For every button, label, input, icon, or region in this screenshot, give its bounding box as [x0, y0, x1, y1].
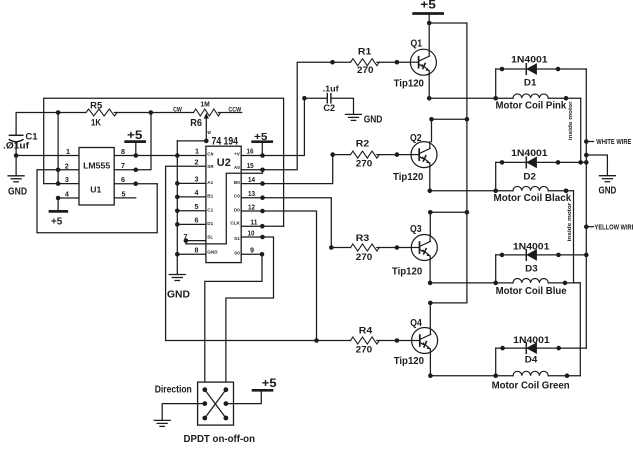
- capacitor C1 .01uf: [3, 113, 38, 176]
- wire U2 pin10 S1 to DPDT switch: [226, 235, 274, 390]
- resistor R5 1K: [86, 101, 117, 128]
- svg-text:R5: R5: [90, 101, 102, 111]
- wire U2 pin2 SR serial feedback to R4 row: [166, 166, 351, 340]
- wire U2 pin15 QA to R1: [241, 60, 350, 172]
- svg-text:Motor Coil Green: Motor Coil Green: [492, 381, 570, 392]
- resistor R3 270: [351, 233, 412, 262]
- svg-text:Motor Coil Black: Motor Coil Black: [494, 193, 572, 204]
- wire U2 pin9 S0 to DPDT switch: [205, 252, 265, 390]
- svg-text:CCW: CCW: [228, 106, 242, 113]
- diode D2 1N4001: [496, 148, 587, 191]
- diode D4 1N4001: [496, 335, 587, 376]
- svg-text:R6: R6: [190, 118, 202, 129]
- inductor Motor Coil Green: [492, 371, 581, 391]
- svg-text:GND: GND: [599, 186, 617, 197]
- svg-text:1M: 1M: [200, 99, 209, 108]
- label DPDT on-off-on: [184, 434, 256, 445]
- svg-text:6: 6: [121, 175, 125, 184]
- svg-text:inside motor: inside motor: [568, 101, 574, 141]
- ground at C2: [346, 114, 383, 125]
- svg-text:inside motor: inside motor: [567, 202, 573, 242]
- svg-text:10: 10: [248, 228, 255, 237]
- wire U1 pin5 stub: [114, 197, 136, 199]
- U2 internal pin labels: [207, 151, 240, 255]
- svg-text:Q4: Q4: [410, 318, 422, 329]
- shift register U2 74194: [206, 135, 241, 262]
- svg-text:1K: 1K: [91, 118, 101, 128]
- svg-text:5: 5: [195, 202, 199, 211]
- svg-text:R2: R2: [356, 138, 370, 148]
- transistor Q3 Tip120: [392, 210, 467, 278]
- resistor R1 270: [351, 46, 411, 75]
- wire U2 pin11 CLK stub: [241, 224, 283, 229]
- svg-text:16: 16: [247, 147, 254, 156]
- wire blue coil right down to D4 row and green coil right: [579, 283, 581, 376]
- wire U1 pin6 stub: [114, 181, 157, 186]
- wire pink coil right to common node: [580, 98, 582, 162]
- svg-text:Tip120: Tip120: [392, 267, 423, 278]
- svg-text:A1: A1: [207, 180, 213, 185]
- label Direction: [155, 385, 192, 396]
- svg-text:270: 270: [356, 158, 373, 168]
- svg-text:YELLOW WIRE: YELLOW WIRE: [595, 224, 633, 231]
- svg-text:B0: B0: [234, 180, 240, 185]
- svg-text:C0: C0: [234, 194, 240, 199]
- wire R6 wiper to pin1 row: [177, 140, 206, 142]
- transistor Q4 Tip120: [394, 301, 467, 367]
- wire U1 pin7 to R5/R6 junction: [114, 113, 151, 173]
- svg-text:Motor Coil Pink: Motor Coil Pink: [496, 101, 567, 112]
- +5 supply at transistor collectors: [414, 0, 443, 25]
- wire Q2 emitter to black coil: [428, 168, 514, 194]
- svg-text:Q1: Q1: [411, 39, 423, 50]
- svg-text:1: 1: [66, 147, 70, 156]
- ground at DPDT: [154, 420, 170, 426]
- svg-text:R4: R4: [359, 325, 373, 335]
- svg-text:GND: GND: [167, 288, 190, 300]
- svg-text:WHITE WIRE: WHITE WIRE: [596, 139, 631, 146]
- svg-text:14: 14: [248, 175, 255, 184]
- svg-text:Q2: Q2: [410, 133, 422, 144]
- wire Q4 emitter to green coil: [428, 354, 513, 379]
- svg-text:.Ø1uf: .Ø1uf: [3, 140, 30, 150]
- svg-text:+5: +5: [420, 0, 436, 12]
- svg-text:1: 1: [195, 147, 199, 156]
- svg-text:270: 270: [356, 345, 373, 355]
- svg-text:D1: D1: [207, 221, 213, 226]
- svg-text:D1: D1: [524, 77, 537, 88]
- +5 supply at U2 pin 16: [253, 131, 272, 156]
- svg-text:GND: GND: [364, 114, 383, 125]
- +5 supply at U1 pin 4: [50, 211, 67, 227]
- svg-text:GND: GND: [8, 186, 27, 197]
- wire U2 pin13 QC to R3: [241, 195, 350, 249]
- svg-text:4: 4: [65, 190, 69, 199]
- resistor R2 270: [351, 138, 412, 168]
- diode D1 1N4001: [496, 55, 587, 99]
- inductor Motor Coil Black: [494, 186, 574, 204]
- svg-text:1N4001: 1N4001: [513, 335, 550, 345]
- transistor Q1 Tip120: [394, 23, 437, 90]
- svg-text:SR: SR: [207, 164, 214, 169]
- svg-text:74 194: 74 194: [212, 135, 239, 147]
- svg-text:Tip120: Tip120: [394, 356, 425, 367]
- transistor Q2 Tip120: [393, 117, 467, 183]
- svg-text:4: 4: [195, 188, 199, 197]
- svg-text:U2: U2: [217, 157, 231, 169]
- svg-text:SL: SL: [207, 235, 213, 240]
- wire U2 left bus (pins 1,3,4,5,6,8) to ground: [175, 141, 180, 274]
- svg-text:S0: S0: [234, 250, 240, 255]
- svg-text:CLK: CLK: [230, 221, 240, 226]
- +5 supply at DPDT: [253, 376, 277, 390]
- svg-text:Tip120: Tip120: [394, 79, 425, 90]
- ground below C1: [8, 176, 27, 198]
- svg-text:D4: D4: [525, 355, 538, 366]
- switch DPDT on-off-on (Direction): [198, 382, 234, 425]
- svg-text:A0: A0: [234, 165, 240, 170]
- svg-text:2: 2: [65, 161, 69, 170]
- svg-text:1N4001: 1N4001: [511, 55, 547, 65]
- svg-text:Clr: Clr: [207, 151, 214, 156]
- svg-text:DPDT on-off-on: DPDT on-off-on: [184, 434, 256, 445]
- wire main row: C1/U1 pin1 and U1 pin8 to U2 pin1: [14, 153, 206, 158]
- wire Q1 emitter to pink coil: [427, 75, 513, 100]
- svg-text:R3: R3: [356, 233, 370, 243]
- svg-text:.1uf: .1uf: [323, 84, 339, 93]
- wire Q3 emitter to blue coil: [428, 261, 513, 286]
- wire DPDT common right to +5: [226, 392, 261, 404]
- node WHITE WIRE: [586, 139, 631, 146]
- svg-text:270: 270: [356, 252, 373, 262]
- svg-text:+5: +5: [262, 376, 277, 390]
- svg-text:R1: R1: [358, 46, 372, 56]
- svg-text:2: 2: [195, 158, 199, 167]
- svg-text:5: 5: [122, 190, 126, 199]
- wire common node to ground: [586, 155, 607, 175]
- svg-text:8: 8: [121, 147, 125, 156]
- inductor Motor Coil Pink: [496, 94, 581, 112]
- svg-text:+V: +V: [234, 151, 241, 156]
- svg-text:1N4001: 1N4001: [511, 148, 547, 158]
- wire U1 pin3 stub: [44, 183, 79, 185]
- wire 555 pin3 output to 74194 pin11 clock (top rail): [44, 98, 284, 226]
- svg-text:1N4001: 1N4001: [513, 241, 550, 251]
- svg-text:D0: D0: [234, 208, 240, 213]
- wire black coil right to blue coil right: [574, 191, 581, 283]
- svg-text:GND: GND: [207, 250, 218, 255]
- label inside motor (pink/black): [568, 101, 574, 141]
- svg-text:11: 11: [250, 218, 257, 227]
- svg-text:B1: B1: [207, 194, 213, 199]
- svg-text:S1: S1: [234, 236, 240, 241]
- inductor Motor Coil Blue: [496, 278, 581, 296]
- svg-text:6: 6: [195, 216, 199, 225]
- wire U2 pin stubs 3,4,5,6,8: [177, 183, 206, 254]
- U1 pin numbers: [65, 147, 126, 199]
- U2 pin numbers: [184, 147, 258, 255]
- wire +5 collector rail: [429, 23, 469, 303]
- diode D3 1N4001: [496, 241, 587, 283]
- wire common return rail (right): [584, 69, 589, 348]
- capacitor C2 .1uf: [304, 84, 353, 114]
- svg-text:13: 13: [248, 189, 255, 198]
- svg-text:270: 270: [357, 65, 374, 75]
- ground at common node: [599, 176, 617, 197]
- svg-text:C1: C1: [207, 208, 213, 213]
- svg-text:8: 8: [195, 246, 199, 255]
- wire U1 pin4 to +5: [56, 196, 79, 211]
- wire U1 pin2 loop to pin6: [37, 170, 157, 233]
- svg-text:U1: U1: [90, 184, 101, 194]
- label inside motor (blue/green): [567, 202, 573, 242]
- wire R5/R6 timing row: [16, 110, 242, 115]
- wire R5 left to U1 pins 2,3: [56, 113, 61, 186]
- svg-text:D2: D2: [523, 172, 536, 183]
- svg-text:CW: CW: [173, 107, 182, 114]
- wire U2 pin12 QD to R4: [241, 209, 319, 343]
- svg-text:D3: D3: [525, 264, 538, 275]
- svg-text:Direction: Direction: [155, 385, 192, 396]
- potentiometer R6 1M: [173, 99, 242, 143]
- svg-text:3: 3: [65, 175, 69, 184]
- svg-text:12: 12: [248, 202, 255, 211]
- svg-text:Tip120: Tip120: [393, 172, 424, 183]
- wire U2 pin16 +V with C2 riser: [241, 96, 307, 158]
- +5 supply at U1 pin 8: [126, 130, 145, 156]
- node YELLOW WIRE: [586, 224, 633, 231]
- svg-text:7: 7: [121, 161, 125, 170]
- svg-text:3: 3: [195, 175, 199, 184]
- svg-text:+5: +5: [51, 216, 63, 227]
- op-amp U1 LM555 timer: [79, 148, 114, 206]
- svg-text:Motor Coil Blue: Motor Coil Blue: [496, 286, 567, 297]
- svg-text:LM555: LM555: [83, 160, 110, 170]
- wire DPDT common left to ground: [162, 404, 205, 421]
- wire U2 pin14 QB to R2: [241, 152, 350, 186]
- svg-text:9: 9: [250, 246, 254, 255]
- svg-text:C2: C2: [323, 103, 335, 113]
- svg-text:15: 15: [247, 161, 254, 170]
- resistor R4 270: [351, 325, 412, 354]
- svg-text:Q3: Q3: [410, 224, 422, 235]
- ground below U2 bus: [167, 275, 190, 301]
- wire U2 pin7 SL serial feedback to QA: [184, 170, 263, 244]
- svg-text:+5: +5: [127, 130, 143, 142]
